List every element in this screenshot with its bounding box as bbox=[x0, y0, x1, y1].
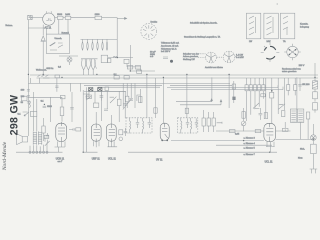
socket view U3 bbox=[287, 46, 298, 57]
resistor R28 bbox=[154, 108, 157, 113]
tube V5 pins bbox=[266, 142, 275, 152]
svg-text:UCL 11: UCL 11 bbox=[265, 161, 274, 164]
svg-text:220 V: 220 V bbox=[299, 65, 305, 67]
IF1 trimmer Cb bbox=[148, 118, 151, 128]
capacitor C22 bbox=[126, 96, 129, 102]
arrowheads bbox=[211, 99, 222, 102]
ballast resistor RB1 hatched bbox=[312, 81, 317, 89]
svg-text:a. Klemme 4: a. Klemme 4 bbox=[244, 143, 256, 145]
svg-text:Achse gesehen: Achse gesehen bbox=[183, 55, 199, 58]
terminal strip bbox=[29, 151, 48, 153]
wire tube2 grid bbox=[96, 112, 111, 124]
IF1 trimmer Ca bbox=[136, 118, 139, 128]
tube V2 UCH11 envelope bbox=[91, 124, 101, 141]
main bus B bbox=[43, 77, 318, 79]
grid field verticals bbox=[266, 78, 285, 123]
tube V3 pins bbox=[108, 141, 118, 147]
switch box S2 bbox=[246, 13, 260, 39]
main bus A bbox=[36, 74, 318, 76]
wire verticals mid bbox=[95, 91, 125, 122]
capacitor C19 bbox=[43, 106, 47, 107]
coupling parts C5 R8 bbox=[69, 128, 74, 132]
left mid component cluster bbox=[86, 91, 91, 100]
P3 arrow bbox=[242, 108, 246, 131]
socket pin dots bbox=[289, 49, 297, 55]
S2 contacts bbox=[249, 16, 256, 35]
socket U3 cross + pins bbox=[284, 44, 301, 61]
speaker SP1 bbox=[17, 134, 28, 145]
wire rectifier cathode drop bbox=[42, 25, 44, 36]
resistor R18 bbox=[117, 99, 121, 105]
cluster left of IF1 box Rx bbox=[119, 130, 123, 135]
tube V1 pins bbox=[55, 141, 66, 152]
rectifier tube U1 AZ11 envelope bbox=[43, 13, 55, 25]
wire tube1 top bbox=[50, 97, 52, 122]
svg-text:Schaltbild mit Spulen-Anordn.: Schaltbild mit Spulen-Anordn. bbox=[190, 22, 218, 25]
svg-text:Umsch.: Umsch. bbox=[55, 38, 63, 40]
coil L9 bbox=[91, 59, 95, 70]
svg-text:Drehko: Drehko bbox=[151, 20, 159, 23]
mid-right cluster x232 bbox=[233, 81, 235, 103]
right dense row resistor chain bbox=[245, 85, 265, 91]
det resistor Rc bbox=[212, 118, 215, 126]
wire grid line left bbox=[28, 96, 62, 98]
wire R6 bbox=[61, 97, 63, 121]
capacitor C15 bbox=[55, 86, 58, 87]
wafer W1 spokes bbox=[206, 52, 215, 62]
svg-text:UCH 11: UCH 11 bbox=[56, 157, 65, 160]
resistor RB3 bbox=[313, 103, 318, 110]
coil L2 bbox=[87, 39, 89, 50]
right edge chain vertical bbox=[314, 63, 316, 81]
resistor RB2 bbox=[313, 92, 318, 99]
IF1 coil La bbox=[130, 118, 131, 133]
svg-text:Roehrensockel von: Roehrensockel von bbox=[282, 67, 302, 70]
lamp LP2 bbox=[311, 135, 317, 141]
svg-text:a. Klemme 5: a. Klemme 5 bbox=[244, 148, 256, 150]
svg-text:6,3: 6,3 bbox=[58, 66, 62, 68]
socket view U2 dark bbox=[264, 46, 275, 59]
agc wires nested bbox=[167, 85, 283, 89]
svg-text:MW: MW bbox=[267, 41, 272, 43]
long line y140 bbox=[171, 140, 313, 141]
coil L10 bbox=[29, 101, 30, 108]
potentiometer P2 bbox=[110, 97, 117, 103]
box fuse F1 bbox=[311, 144, 317, 153]
resistor R24 bbox=[264, 113, 267, 119]
svg-text:AZ 11: AZ 11 bbox=[45, 25, 52, 29]
switch S1 inside box bbox=[50, 43, 63, 50]
resistor R11 bbox=[135, 66, 140, 69]
svg-text:Sich.: Sich. bbox=[300, 148, 305, 150]
svg-text:Ansicht von hinten: Ansicht von hinten bbox=[205, 66, 224, 69]
screen box small bbox=[108, 58, 111, 62]
capacitor C1 on antenna rail bbox=[27, 90, 30, 91]
wire lower bbox=[130, 69, 155, 71]
IF2 coil Lb bbox=[191, 118, 192, 133]
svg-text:Heizstrom 0,1 A: Heizstrom 0,1 A bbox=[161, 47, 177, 50]
svg-text:Schalter von der: Schalter von der bbox=[183, 53, 199, 56]
resistor R1 bbox=[57, 16, 63, 19]
resistor R10 bbox=[127, 66, 132, 69]
tube V1 UCH11 envelope bbox=[56, 123, 67, 141]
capacitor C8 bbox=[137, 70, 142, 73]
svg-text:Kontakt-: Kontakt- bbox=[300, 23, 308, 26]
resistor R4 diag inside box bbox=[50, 42, 56, 46]
pickup resistor row bbox=[163, 57, 168, 59]
resistor R27 bbox=[294, 85, 297, 91]
volume pot P3 bbox=[241, 121, 246, 126]
IF2 trimmer Cb bbox=[195, 118, 198, 128]
wire x300 bbox=[299, 78, 301, 91]
wire B+ rail to x117 bbox=[102, 17, 118, 19]
capacitor C2 bbox=[27, 96, 30, 97]
svg-text:5000: 5000 bbox=[47, 106, 52, 108]
wire anode row y131 bbox=[216, 130, 264, 132]
wire bbox=[127, 64, 141, 67]
svg-text:LW: LW bbox=[249, 41, 253, 43]
power block box bbox=[46, 34, 69, 53]
wire long vertical pair bbox=[83, 87, 86, 152]
tube V5 output envelope bbox=[264, 123, 276, 141]
svg-text:3-4 MW: 3-4 MW bbox=[236, 57, 245, 59]
potentiometer P1 arrows bbox=[23, 112, 29, 116]
right chain wires bbox=[247, 78, 264, 121]
IF2 trimmer Ca bbox=[186, 118, 189, 128]
long bottom bus y152 bbox=[16, 151, 277, 153]
mid cluster left of IF bbox=[137, 89, 140, 103]
title Nord-Mende bbox=[2, 142, 8, 170]
resistor R14 bbox=[232, 84, 235, 89]
svg-text:UCL 11: UCL 11 bbox=[108, 157, 117, 160]
switch box S3 bbox=[264, 13, 278, 39]
det resistor Rb bbox=[207, 118, 210, 126]
arrow tip bbox=[125, 17, 127, 19]
tube V5 electrodes bbox=[266, 123, 273, 141]
wafer switch W2 bbox=[223, 51, 235, 63]
resistor R22 bbox=[185, 108, 188, 113]
coil L8 bbox=[86, 59, 90, 70]
connector X1 mains input bbox=[28, 15, 33, 19]
bus D bbox=[84, 84, 232, 86]
tube V3 envelope bbox=[106, 124, 116, 141]
resistor R23 bbox=[270, 92, 274, 98]
box K3 bbox=[105, 87, 109, 90]
svg-text:5000: 5000 bbox=[57, 14, 63, 16]
svg-text:Stellung LW: Stellung LW bbox=[183, 58, 196, 61]
wire vertical drop x117 bbox=[116, 18, 118, 58]
switch box S4 bbox=[280, 13, 294, 39]
svg-text:Netzan.: Netzan. bbox=[6, 24, 14, 27]
cluster circle bbox=[119, 137, 123, 141]
tube V3 electrodes bbox=[109, 124, 115, 143]
verticals from buses bbox=[147, 74, 229, 123]
LP2 cross bbox=[312, 124, 316, 144]
IF transformer dashed box 1 bbox=[126, 118, 152, 133]
IF1 coil Lb bbox=[143, 118, 144, 133]
svg-text:0,05: 0,05 bbox=[235, 133, 240, 135]
capacitor C18 bbox=[261, 94, 265, 97]
svg-text:Netz: Netz bbox=[298, 157, 303, 160]
capacitor C23 bbox=[129, 99, 133, 100]
capacitor C21 bbox=[70, 108, 74, 109]
det wires bbox=[204, 110, 222, 132]
heater row2 line bbox=[59, 56, 98, 65]
svg-text:Wellensch.: Wellensch. bbox=[36, 69, 47, 71]
bus F bbox=[84, 91, 126, 93]
wire terminal risers bbox=[30, 143, 47, 152]
resistor R21 left of tube1 bbox=[42, 126, 45, 133]
capacitor C17 bbox=[259, 108, 263, 120]
tube V1 electrodes bbox=[58, 122, 65, 141]
cluster capacitor Cx bbox=[124, 128, 128, 136]
tube U1 pins bbox=[46, 11, 52, 27]
capacitor C16 bbox=[46, 133, 49, 143]
band switch contact row bbox=[30, 75, 50, 78]
det cluster resistor Ra bbox=[202, 118, 205, 126]
S4 contacts bbox=[283, 16, 288, 35]
coil L3 bbox=[92, 39, 94, 50]
S3 contacts bbox=[267, 16, 274, 35]
wires output bbox=[276, 77, 309, 139]
wire B+ to smoothing bbox=[71, 16, 95, 18]
capacitor C6 bbox=[104, 109, 108, 110]
coil L5 bbox=[102, 39, 104, 50]
tube V2 electrodes bbox=[94, 124, 100, 143]
wire bbox=[63, 16, 65, 18]
resistor R3 smoothing bbox=[95, 16, 102, 19]
IF2 coil La bbox=[181, 118, 182, 133]
svg-text:TA: TA bbox=[283, 40, 286, 43]
diode D1 indicator bbox=[41, 36, 46, 74]
tube V4 electrodes bbox=[162, 123, 168, 138]
lamp LP1 dial bbox=[67, 57, 72, 62]
capacitor C3 bbox=[27, 102, 30, 103]
svg-text:a. Klemme 7: a. Klemme 7 bbox=[244, 154, 256, 156]
socket U2 pins bbox=[261, 42, 280, 62]
bus C bbox=[28, 82, 230, 84]
title 298 GW bbox=[8, 95, 20, 136]
coil L7 bbox=[82, 59, 86, 70]
long line y145 bbox=[216, 144, 272, 146]
capacitor C13 on row bbox=[255, 130, 261, 133]
wire contact drops bbox=[31, 78, 81, 92]
tube V2 pins bbox=[93, 141, 99, 147]
switch contact box K1 dark bbox=[89, 88, 93, 91]
volume control blob bbox=[170, 60, 173, 63]
resistor R17 bbox=[86, 95, 91, 99]
svg-text:Anodenstr. 42 mA: Anodenstr. 42 mA bbox=[161, 45, 179, 48]
svg-text:1200: 1200 bbox=[95, 14, 101, 16]
svg-text:a-b: a-b bbox=[150, 56, 154, 58]
speck bbox=[277, 3, 278, 5]
wire col x72 bbox=[71, 92, 73, 122]
svg-text:UY 11: UY 11 bbox=[156, 159, 163, 162]
capacitor C24 bbox=[298, 85, 302, 86]
wire horizontals mid bbox=[83, 92, 125, 95]
rf cluster verticals bbox=[123, 83, 135, 108]
tube V4 envelope bbox=[160, 123, 169, 140]
wire rectifier anode bbox=[55, 16, 58, 18]
wire tie y28 bbox=[28, 28, 46, 34]
wire stub with arrow bbox=[117, 17, 127, 19]
wire R21 bbox=[43, 118, 45, 141]
capacitor C20 bbox=[60, 95, 65, 98]
vertical x130 bbox=[129, 45, 131, 71]
dot C19 bbox=[44, 104, 45, 105]
svg-text:0,1: 0,1 bbox=[41, 101, 45, 103]
capacitor C14 bbox=[282, 128, 288, 131]
svg-text:UR 200: UR 200 bbox=[302, 84, 310, 86]
IF transformer dashed box 2 bbox=[177, 118, 197, 133]
coil L4 bbox=[97, 39, 99, 50]
resistor R7 bbox=[30, 111, 36, 116]
output transformer T2 windings bbox=[33, 131, 42, 144]
capacitor C9 dark bbox=[232, 97, 235, 100]
wire x155 bbox=[155, 78, 157, 118]
mains plug bbox=[310, 154, 318, 174]
svg-text:600 Hz: 600 Hz bbox=[46, 68, 53, 70]
svg-text:Gezeichnet in Stellung Langwel: Gezeichnet in Stellung Langwelle u. TA bbox=[184, 35, 221, 38]
resistor R26 bbox=[287, 85, 290, 91]
svg-text:am 7: am 7 bbox=[58, 161, 64, 163]
tube V4 pin dots bbox=[161, 140, 168, 142]
svg-text:Triftstrom 0,35 mA: Triftstrom 0,35 mA bbox=[161, 41, 179, 44]
resistor R9 bbox=[93, 103, 98, 107]
bus E bbox=[98, 86, 160, 88]
wire mains top bbox=[28, 16, 42, 18]
svg-text:100: 100 bbox=[21, 90, 25, 92]
switch arm diagonal bbox=[123, 99, 132, 110]
tone pot P4 bbox=[45, 138, 50, 146]
resistor R20 on bus bbox=[124, 76, 129, 79]
oscillator coupling wires bbox=[108, 57, 133, 59]
output transformer T1 bbox=[290, 109, 303, 122]
resistor R2 bbox=[65, 16, 71, 19]
coil L6 bbox=[106, 39, 108, 50]
resistor R5 bbox=[55, 75, 60, 78]
capacitor C4 bbox=[21, 96, 27, 101]
resistor R15 bbox=[306, 112, 309, 119]
feedback wires nested bbox=[176, 99, 221, 105]
wafer switch W1 bbox=[206, 52, 217, 63]
coil L11 bumps bbox=[113, 56, 118, 57]
resistor R13 bbox=[139, 96, 142, 102]
dashed link wires bbox=[198, 54, 236, 58]
resistor R12 bbox=[242, 112, 245, 119]
capacitor C12 on row bbox=[229, 130, 235, 133]
capacitor C10 bbox=[100, 92, 104, 100]
svg-text:belegung: belegung bbox=[300, 27, 310, 29]
svg-text:bei 220 V: bei 220 V bbox=[161, 51, 171, 53]
svg-text:a. Klemme 2: a. Klemme 2 bbox=[244, 137, 256, 139]
wire bbox=[314, 89, 316, 113]
wires R26 R27 bbox=[288, 78, 295, 95]
coil L12 bbox=[84, 60, 97, 75]
trimmer C7 bbox=[124, 59, 129, 63]
switch contact box K2 dark bbox=[98, 88, 102, 91]
svg-text:unten gesehen: unten gesehen bbox=[282, 70, 297, 73]
wire antenna rail bbox=[27, 20, 29, 136]
heater chain top line bbox=[59, 20, 117, 40]
resistor R16 bbox=[44, 135, 49, 138]
dot R23 bbox=[271, 90, 273, 92]
wafer W2 spokes bbox=[224, 51, 234, 62]
svg-text:50: 50 bbox=[21, 102, 24, 104]
svg-text:2x50: 2x50 bbox=[65, 14, 71, 16]
capacitor C11 bbox=[123, 104, 127, 105]
resistor R25 bbox=[282, 111, 285, 117]
mixer screen box bbox=[101, 55, 107, 62]
tuning gang dashed circle bbox=[141, 24, 157, 40]
pot arrows P5 bbox=[253, 103, 259, 109]
pot arrow P6 bbox=[279, 104, 286, 109]
resistor R6 vertical bbox=[60, 107, 64, 116]
tuning gang spokes bbox=[143, 25, 155, 38]
wire T2 feeders bbox=[34, 92, 37, 131]
coil L1 bbox=[82, 39, 84, 50]
svg-text:UBF 11: UBF 11 bbox=[92, 157, 101, 160]
resistor R19 on bus bbox=[114, 76, 119, 79]
